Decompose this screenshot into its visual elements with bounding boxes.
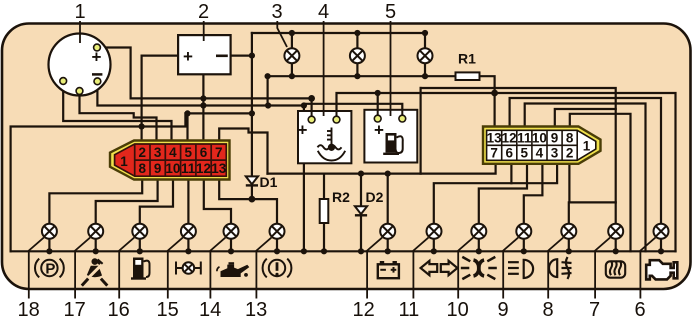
label 3 with leader <box>272 1 288 47</box>
svg-text:17: 17 <box>64 299 86 319</box>
svg-text:14: 14 <box>199 299 221 319</box>
lamp 8 <box>561 224 576 239</box>
svg-text:18: 18 <box>18 299 40 319</box>
wire: red pin 5 drop <box>186 113 188 141</box>
leader lines for bottom labels 18..6 <box>29 238 656 299</box>
svg-text:1: 1 <box>583 139 591 154</box>
svg-text:15: 15 <box>157 299 179 319</box>
wire: voltage box bottom to red pin 6 <box>202 74 204 141</box>
junction dots: bottom ground bus nodes <box>46 248 664 254</box>
wire: lamp 4 bottom stub <box>356 63 358 76</box>
wire: X2 pin 4 bottom to lamp 9 <box>524 164 543 224</box>
svg-text:10: 10 <box>532 130 547 145</box>
svg-text:+: + <box>183 47 193 66</box>
svg-text:3: 3 <box>551 145 559 160</box>
wire: bus y106.4 from speedometer minus pin, down at 303.9 to bottom bus <box>97 81 304 105</box>
wire: voltage box plus to red pin 2 <box>142 56 179 141</box>
resistor R2 <box>320 199 329 223</box>
diode D2 <box>355 206 367 215</box>
resistor R1 <box>456 72 480 80</box>
wire: lamp 9 bottom stub <box>523 239 525 252</box>
svg-text:6: 6 <box>200 145 208 160</box>
wire: drop from y77 bus left end down to bus y106 <box>267 76 269 105</box>
junction dots: X2 pin7 line taps <box>358 171 391 177</box>
svg-text:7: 7 <box>215 145 223 160</box>
icon 8: rear fog light <box>549 257 571 279</box>
icon 6: check engine <box>646 260 677 279</box>
svg-text:6: 6 <box>635 299 646 319</box>
lamp 4 (illumination lamp) <box>350 48 365 63</box>
wire: left rail up and over to D1 rail, red pin 5 drop <box>11 113 252 251</box>
wire: fuel-gauge plus pin up to bus y94 <box>377 93 379 119</box>
wire: X2 pin 9 top to lamp-7 riser <box>555 109 616 127</box>
svg-text:11: 11 <box>181 161 196 176</box>
svg-text:4: 4 <box>536 145 544 160</box>
junction dots: D1 node <box>249 196 256 203</box>
svg-text:10: 10 <box>165 161 180 176</box>
lamp 5 (illumination lamp) <box>418 48 433 63</box>
svg-text:4: 4 <box>318 1 329 23</box>
wire: X2 pin 8 top to bottom bus <box>570 114 631 252</box>
wire: top bus feeding lamps 3-5 <box>252 32 425 34</box>
wire: red pin 9 to lamp 17 <box>96 179 158 224</box>
icon 7: rear window defroster <box>606 261 625 278</box>
connector X2 (white, 13 pin) <box>483 127 601 164</box>
label 1 with leader <box>75 1 86 43</box>
diode D1 <box>246 176 258 185</box>
wire: lamp 8 riser <box>568 202 570 223</box>
icon 10: side lights <box>461 257 497 279</box>
junction dots: node at R1 output and gauge feed line <box>375 90 498 97</box>
wire: R2 bottom lead to bus <box>323 223 325 251</box>
svg-text:+: + <box>374 121 384 140</box>
wire: lamp 12 bottom stub <box>387 239 389 252</box>
wire: lamp 16 bottom stub <box>139 239 141 252</box>
wire: lamp 5 top stub <box>424 33 426 48</box>
svg-text:4: 4 <box>169 145 177 160</box>
svg-text:P: P <box>45 261 55 278</box>
svg-text:D2: D2 <box>366 189 384 205</box>
wire: lamp 13 bottom stub <box>276 239 278 252</box>
wire: fuel-gauge right pin over to mid rail <box>304 104 402 119</box>
wire: vertical 420.6 down to pin7 line <box>420 88 422 174</box>
wire: R1 right lead down to connector X2 pin 13 <box>480 76 495 127</box>
svg-text:+: + <box>92 48 102 67</box>
icon 18: parking brake (P) <box>35 259 64 278</box>
bottom labels 18..6 <box>18 299 646 319</box>
temperature gauge U4 (component 4 box) <box>298 111 352 163</box>
label 2 with leader <box>198 1 209 41</box>
wire: X2 pin 11 top to bottom bus <box>525 104 646 252</box>
svg-text:3: 3 <box>154 145 162 160</box>
wire: lamp 3 top stub <box>291 33 293 48</box>
wire: D2 bottom lead to bus <box>360 215 362 251</box>
lamp 7 <box>608 224 623 239</box>
svg-text:9: 9 <box>154 161 162 176</box>
wire: y86.5 line to lamp 7 <box>421 88 616 224</box>
fuel gauge U5 (component 5 box) <box>364 110 417 163</box>
svg-text:+: + <box>298 121 308 140</box>
svg-text:R2: R2 <box>332 189 350 205</box>
wire: X2 pin 12 top to lamp 6 <box>510 98 661 224</box>
icon 13: brake system warning <box>263 259 292 278</box>
lamp 10 <box>471 224 486 239</box>
junction dots: top lamp bus nodes <box>265 30 429 79</box>
svg-text:12: 12 <box>196 161 211 176</box>
wire: lamp bottom bus y77 to R1 <box>268 75 456 77</box>
wire: bus y94 from temp-gauge pin to right edge down to bottom bus <box>337 93 676 251</box>
wire: X2 pin 7 bottom line with R2 D2 lamp12 taps <box>268 164 496 174</box>
wire: X2 pin 3 bottom line to lamp 11 <box>434 164 557 224</box>
svg-text:2: 2 <box>139 145 147 160</box>
icon 16: low fuel <box>131 258 150 279</box>
lamp 17 <box>88 224 103 239</box>
wire: lamp 4 top stub <box>356 33 358 48</box>
wire: lamp 10 bottom stub <box>478 239 480 252</box>
svg-text:11: 11 <box>399 299 420 319</box>
lamp 11 <box>427 224 442 239</box>
lamp 13 <box>270 224 285 239</box>
icon 12: battery <box>378 261 399 278</box>
lamp 16 <box>132 224 147 239</box>
wire: lamp 7 bottom stub <box>615 239 617 252</box>
wire: red pin 13 via D1 junction to lamp 13 <box>219 179 277 224</box>
svg-text:7: 7 <box>490 145 498 160</box>
lamp 15 <box>181 224 196 239</box>
wire: X2 pin 2 bottom over to lamp-7 riser <box>569 164 615 203</box>
lamp 18 <box>42 224 57 239</box>
svg-text:16: 16 <box>108 299 130 319</box>
svg-text:8: 8 <box>566 130 574 145</box>
svg-text:5: 5 <box>385 1 396 23</box>
svg-text:12: 12 <box>502 130 517 145</box>
connector X1 (red, 13 pin) <box>110 141 230 180</box>
svg-text:12: 12 <box>353 299 375 319</box>
wire: drop from mid rail down to bottom bus <box>303 104 305 252</box>
wire: speedometer pin B staircase to red pin 3 <box>80 91 157 141</box>
wire: red pin 10 to lamp 16 <box>140 179 173 224</box>
svg-text:1: 1 <box>75 1 86 23</box>
junction dots: left rail and pin feeds <box>139 53 255 130</box>
svg-text:1: 1 <box>120 154 128 169</box>
junction dots: stabilizer output buses <box>200 95 315 109</box>
wire: bus y99.5 from speedometer plus pin to temp-gauge plus pin <box>97 48 312 120</box>
svg-text:5: 5 <box>521 145 529 160</box>
svg-text:5: 5 <box>184 145 192 160</box>
icon 9: low beam <box>508 260 533 278</box>
wire: lamp 18 bottom stub <box>48 239 50 252</box>
label 5 with leader <box>385 1 396 116</box>
wire: red pin 7 staircase over to X2-pin-7 line <box>219 129 267 174</box>
speedometer U1 (component 1, round connector) <box>49 34 111 96</box>
wire: lamp 14 bottom stub <box>230 239 232 252</box>
wire: bottom ground bus <box>11 250 676 252</box>
svg-text:9: 9 <box>498 299 509 319</box>
svg-text:3: 3 <box>272 1 283 23</box>
wire: resistor R2 top lead <box>323 174 325 199</box>
lamp 14 <box>224 224 239 239</box>
wire: red pin 11 to lamp 15 <box>187 179 189 224</box>
wire: lamp 8 bottom stub <box>568 239 570 252</box>
lamp 9 <box>516 224 531 239</box>
wire: lamp 3 bottom stub <box>291 63 293 76</box>
svg-text:13: 13 <box>487 130 503 145</box>
wire: X2 pin 5 bottom to lamp 10 <box>479 164 527 224</box>
icon 11: turn signals <box>421 261 458 275</box>
icon 15: lamp failure indicator <box>176 262 201 275</box>
svg-text:6: 6 <box>505 145 513 160</box>
svg-text:9: 9 <box>551 130 559 145</box>
svg-text:13: 13 <box>211 161 227 176</box>
wire: X2 pin 6 bottom stub into shared line <box>510 164 512 183</box>
wire: lamp 11 bottom stub <box>433 239 435 252</box>
svg-text:D1: D1 <box>260 174 278 190</box>
svg-text:13: 13 <box>245 299 267 319</box>
wire: lamp 17 bottom stub <box>95 239 97 252</box>
svg-text:2: 2 <box>198 1 209 23</box>
icon 17: seat belt <box>82 258 108 285</box>
lamp 3 (illumination lamp) <box>284 48 299 63</box>
svg-text:7: 7 <box>589 299 600 319</box>
icon 14: oil pressure <box>217 262 249 277</box>
wire: red pin 8 to lamp 18 <box>49 179 142 224</box>
voltage stabilizer U2 (component 2 box) <box>178 35 231 74</box>
wire: D1 rail below diode to junction <box>251 185 253 199</box>
svg-text:8: 8 <box>139 161 147 176</box>
svg-text:8: 8 <box>543 299 554 319</box>
wire: voltage box minus to D1 rail <box>231 54 252 56</box>
svg-text:10: 10 <box>447 299 469 319</box>
wire: lamp 6 bottom stub <box>660 239 662 252</box>
wire: D1 rail vertical <box>251 33 253 185</box>
svg-text:R1: R1 <box>458 51 476 67</box>
wire: red pin 12 to lamp 14 <box>204 179 231 224</box>
wire: speedometer pin A line to red pin 4 <box>63 81 171 141</box>
wire: D2 top lead <box>360 174 362 216</box>
wire: lamp 12 riser <box>387 174 389 224</box>
wire: lamp 15 bottom stub <box>187 239 189 252</box>
lamp 6 <box>654 224 669 239</box>
svg-text:2: 2 <box>566 145 574 160</box>
wire: lamp 5 bottom stub <box>424 63 426 76</box>
svg-text:11: 11 <box>517 130 532 145</box>
lamp 12 <box>380 224 395 239</box>
label 4 with leader <box>318 1 329 116</box>
